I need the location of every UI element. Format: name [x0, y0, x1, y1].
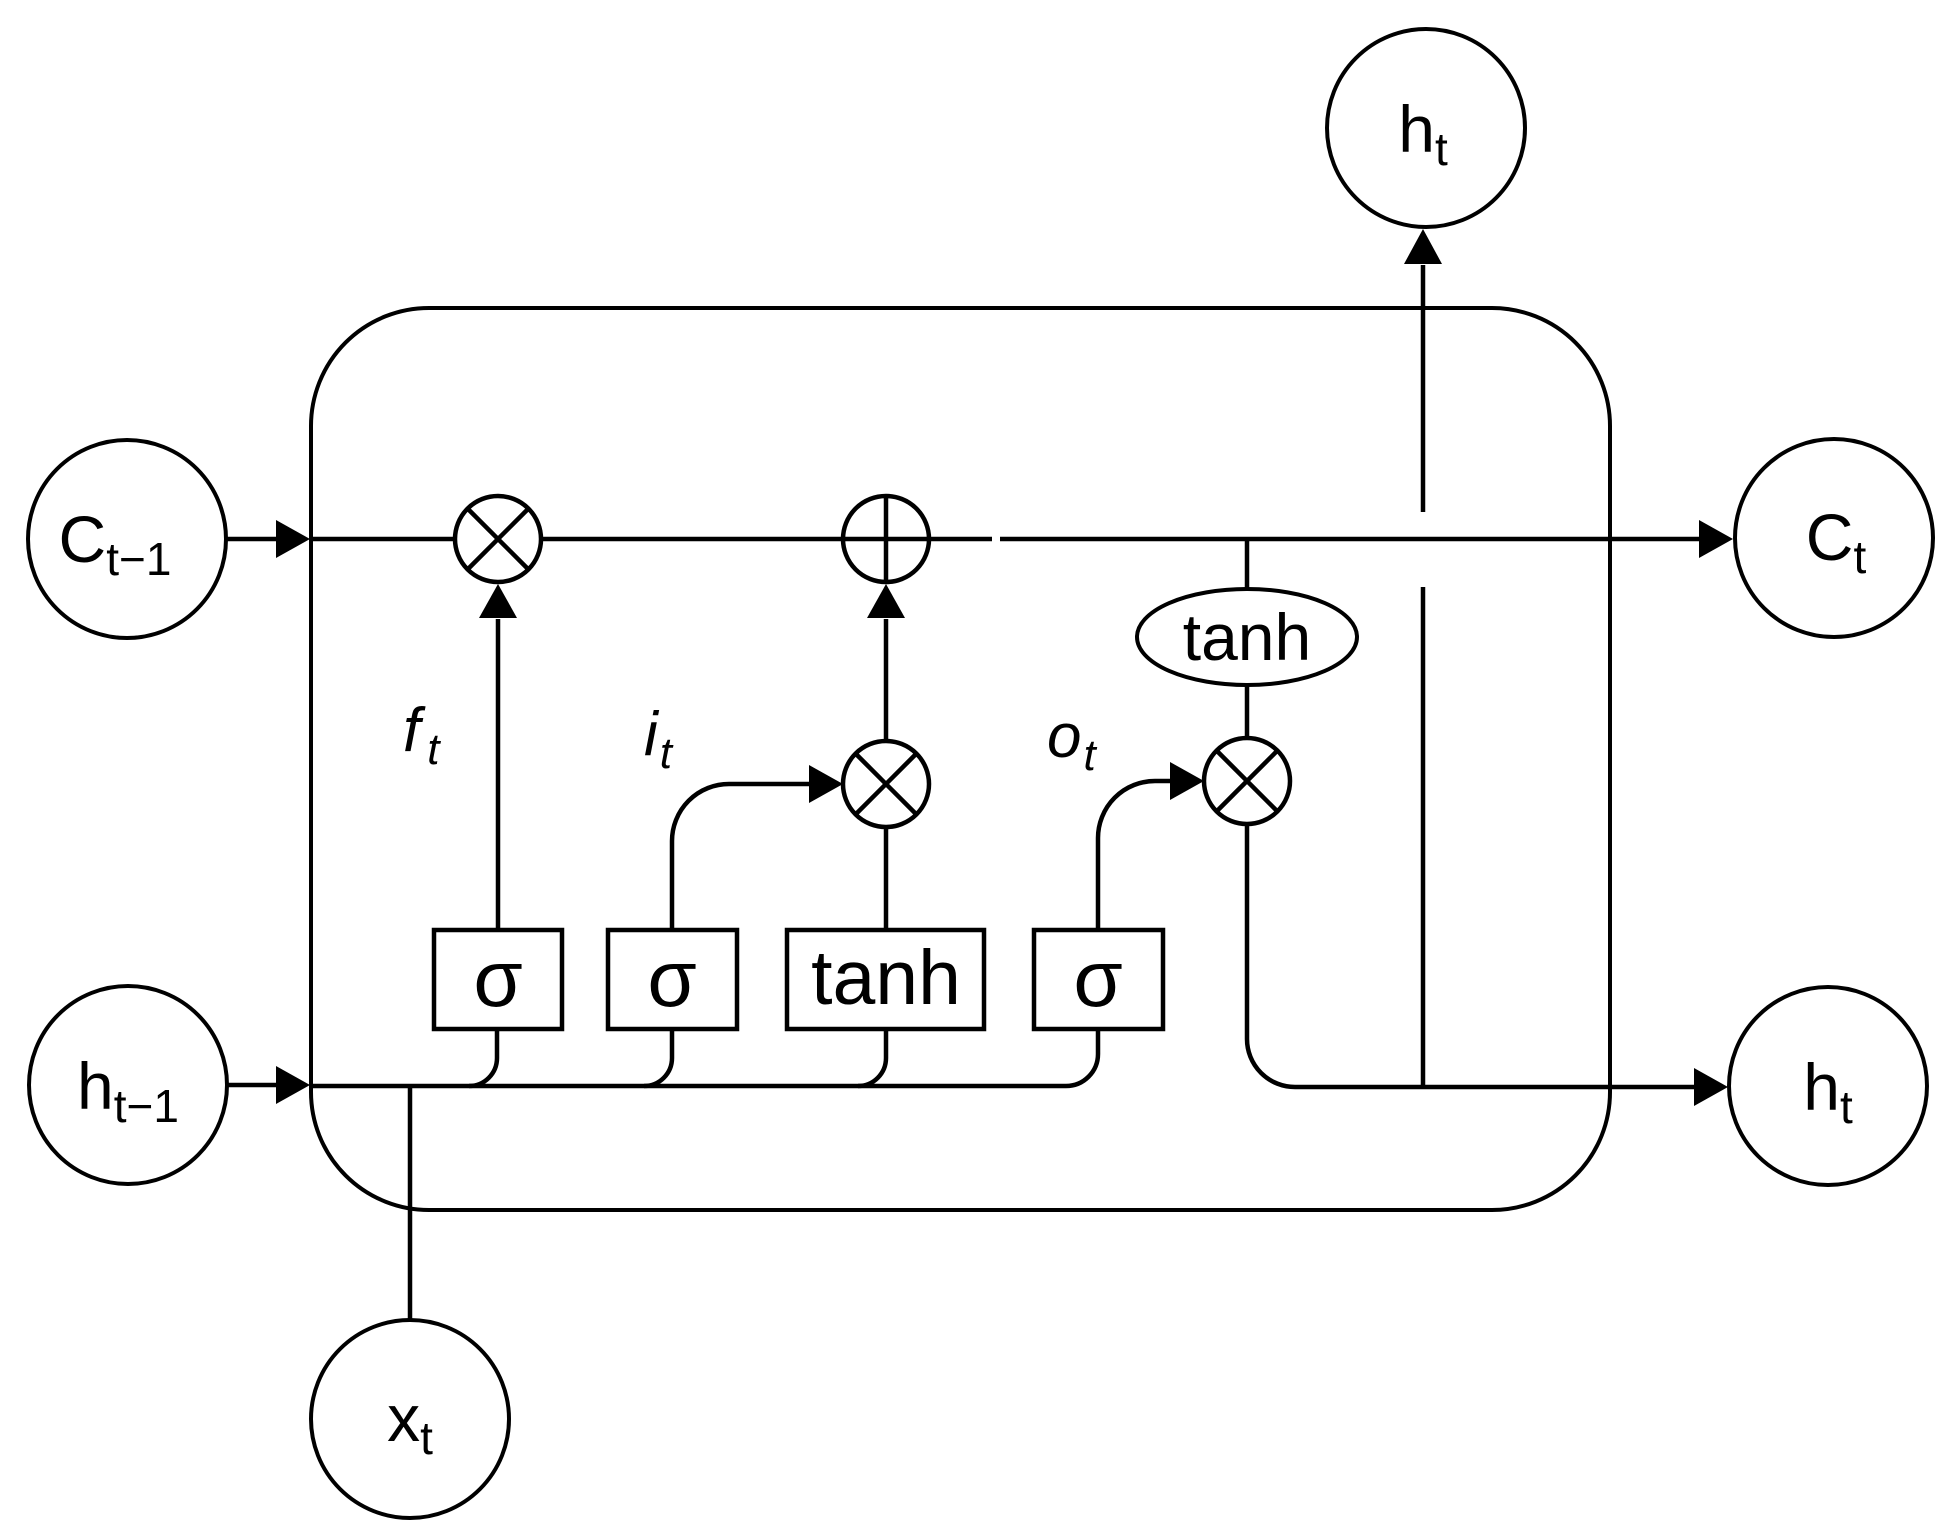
wire cell-state line: multiply to beyond add node — [540, 537, 992, 542]
wire h-line end curving up into sigma box 3 — [1066, 1029, 1098, 1086]
multiply node (forget gate) — [455, 496, 541, 582]
svg-text:σ: σ — [1073, 934, 1122, 1023]
wire junction: cell-state line down to tanh ellipse — [1245, 539, 1250, 590]
wire x_t drop line — [408, 1086, 413, 1320]
wire input h-line inside cell — [311, 1084, 1066, 1089]
wire branch from h-line into sigma box 1 — [469, 1029, 497, 1086]
wire tanh ellipse to multiply (output gate) — [1245, 685, 1250, 739]
node h_{t-1} — [29, 986, 227, 1184]
wire C_{t-1} to cell with arrowhead — [226, 520, 310, 558]
tanh ellipse — [1137, 589, 1357, 685]
node C_t — [1735, 439, 1933, 637]
wire output multiply down, curve right onto output h-line — [1247, 824, 1295, 1087]
tanh box (candidate) — [787, 930, 984, 1029]
wire h_t riser (upper segment with arrowhead into top h_t) — [1404, 229, 1442, 512]
wire forget-gate riser with arrowhead into multiply — [479, 584, 517, 930]
wire output-gate riser: sigma box 3 top, curve right, arrowhead into multiply — [1098, 762, 1204, 930]
wire output h-line to cell edge and h_t with arrowhead — [1295, 1068, 1728, 1106]
sigma box 1 (forget gate) — [434, 930, 562, 1029]
wire multiply-to-add riser with arrowhead — [867, 584, 905, 741]
svg-text:tanh: tanh — [811, 935, 961, 1021]
multiply node (input gate) — [843, 741, 929, 827]
cell body rounded rectangle — [311, 308, 1610, 1210]
svg-text:tanh: tanh — [1183, 600, 1311, 674]
node C_{t-1} — [28, 440, 226, 638]
wire tanh box top to multiply (input gate) — [884, 827, 889, 930]
svg-text:σ: σ — [473, 934, 522, 1023]
multiply node (output gate) — [1204, 738, 1290, 824]
wire branch from h-line into tanh box — [858, 1029, 886, 1086]
add node — [843, 496, 929, 582]
svg-text:σ: σ — [647, 934, 696, 1023]
node h_t (right) — [1729, 987, 1927, 1185]
node x_t — [311, 1320, 509, 1518]
wire h_{t-1} to cell with arrowhead — [227, 1066, 310, 1104]
wire input-gate riser: sigma box 2 top, curve right, arrowhead into multiply — [672, 765, 843, 930]
wire cell-state line: cell edge to multiply node — [311, 537, 456, 542]
wire branch from h-line into sigma box 2 — [644, 1029, 672, 1086]
node h_t (top) — [1327, 29, 1525, 227]
sigma box 2 (input gate) — [608, 930, 737, 1029]
wire h_t riser (lower segment, from output h-line up to cell-state crossing) — [1421, 587, 1426, 1087]
wire cell-state line: to cell right edge and C_t — [1000, 537, 1700, 542]
sigma box 3 (output gate) — [1034, 930, 1163, 1029]
